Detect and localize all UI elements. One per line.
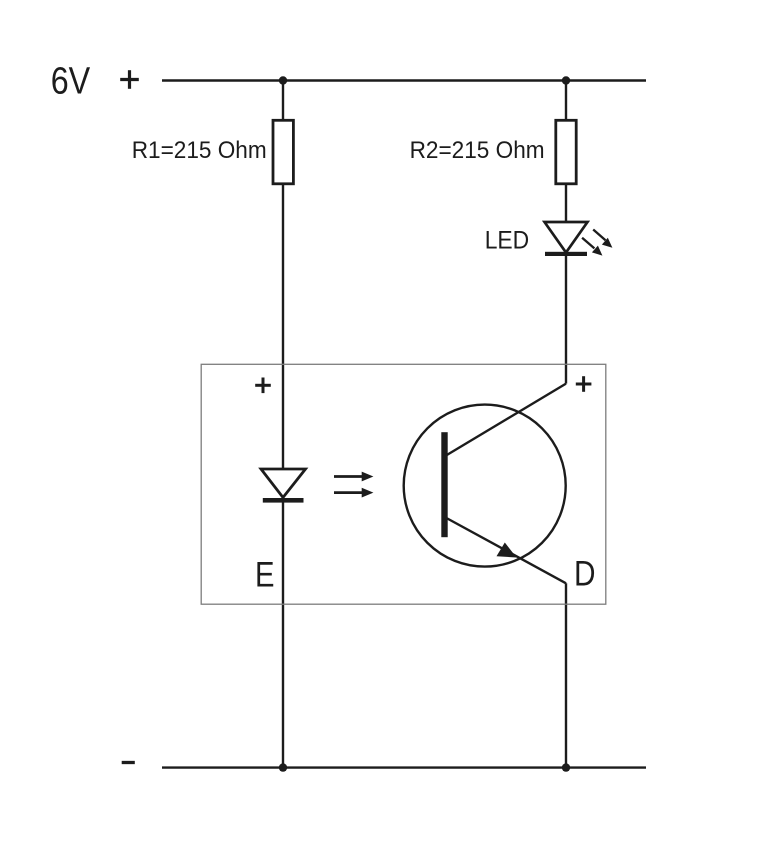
- node bottom-right junction: [562, 763, 570, 771]
- svg-text:R2=215 Ohm: R2=215 Ohm: [410, 137, 545, 164]
- node collector plus right: [576, 376, 592, 392]
- node top-left junction: [279, 76, 287, 84]
- wire left branch: [282, 81, 284, 768]
- svg-text:LED: LED: [485, 227, 530, 255]
- wire top supply rail: [162, 79, 646, 81]
- svg-text:R1=215 Ohm: R1=215 Ohm: [132, 137, 267, 164]
- node minus supply: [122, 761, 135, 764]
- node top-right junction: [562, 76, 570, 84]
- svg-text:6V: 6V: [51, 61, 91, 103]
- wire right branch lower: [565, 583, 567, 767]
- light coupling arrows: [334, 472, 373, 498]
- node plus supply: [120, 70, 139, 89]
- node bottom-left junction: [279, 763, 287, 771]
- wire right branch upper: [565, 81, 567, 384]
- node anode plus left: [255, 378, 271, 394]
- wire collector diagonal: [446, 384, 566, 456]
- svg-text:E: E: [255, 556, 275, 595]
- LED D1: [545, 222, 613, 256]
- wire emitter diagonal: [446, 518, 566, 583]
- wire bottom return rail: [162, 766, 646, 768]
- resistor R2: [556, 120, 576, 184]
- resistor R1: [273, 120, 293, 184]
- optocoupler box: [201, 364, 606, 604]
- transistor Q1 phototransistor: [404, 405, 566, 567]
- svg-text:D: D: [574, 555, 596, 594]
- diode opto emitter LED: [261, 469, 306, 503]
